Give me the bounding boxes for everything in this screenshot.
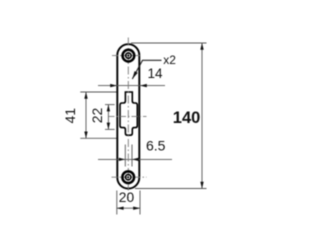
svg-text:20: 20: [119, 190, 135, 205]
svg-text:22: 22: [89, 108, 105, 124]
svg-text:140: 140: [173, 109, 201, 127]
svg-text:6.5: 6.5: [146, 137, 166, 153]
svg-text:41: 41: [62, 108, 78, 124]
svg-text:x2: x2: [163, 53, 176, 67]
svg-text:14: 14: [148, 66, 164, 81]
